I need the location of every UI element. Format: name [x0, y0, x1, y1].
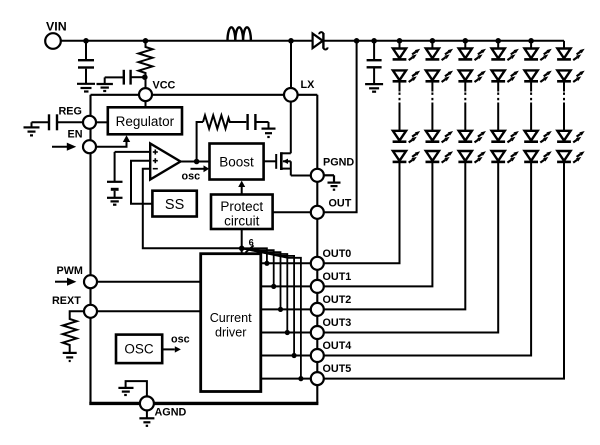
pin OUT0	[311, 257, 324, 270]
resistor R3 (REXT)	[63, 311, 84, 352]
wire string 3 cathode to OUT2	[324, 162, 465, 310]
svg-text:AGND: AGND	[155, 407, 187, 419]
LED D6a	[557, 49, 585, 61]
ground (analog, near AGND)	[118, 381, 146, 396]
wire string 4 mid	[497, 81, 499, 91]
ground (C2)	[97, 84, 113, 91]
block Boost	[210, 144, 264, 180]
svg-text:LX: LX	[301, 79, 316, 91]
svg-text:SS: SS	[165, 197, 184, 213]
junction compensation node	[194, 159, 200, 165]
wire bus fan 5	[242, 248, 301, 378]
wire Current driver to OUT5 pin	[261, 378, 311, 380]
junction string 4/rail	[495, 38, 501, 44]
svg-text:PWM: PWM	[57, 265, 83, 277]
svg-text:OUT3: OUT3	[323, 317, 352, 329]
diode D1 (schottky)	[313, 32, 328, 49]
wire U1 input 2 to SS	[131, 161, 152, 204]
svg-text:driver: driver	[215, 325, 247, 339]
pin OUT	[311, 206, 324, 219]
LED D6b	[557, 70, 585, 82]
pin LX	[284, 88, 298, 102]
node osc output arrow	[162, 334, 189, 353]
wire string 6 dotted continuation	[563, 93, 565, 104]
capacitor C3 (output cap)	[367, 41, 382, 84]
pin VCC	[139, 88, 152, 101]
wire string 4 dotted continuation	[497, 93, 499, 104]
LED D2d	[426, 151, 454, 163]
LED D4a	[491, 49, 519, 61]
LED D1a	[393, 49, 421, 61]
wire string 5 mid2	[530, 103, 532, 132]
LED string 6	[324, 41, 585, 379]
wire string 6 mid2	[563, 103, 565, 132]
junction string 1/rail	[397, 38, 403, 44]
junction fan 5/OUT5 wire	[298, 376, 303, 381]
LED D3d	[458, 151, 486, 163]
wire string 3 mid2	[464, 103, 466, 132]
svg-text:VIN: VIN	[46, 20, 67, 34]
wire PWM to Current driver	[97, 281, 201, 283]
pin PGND	[311, 169, 324, 182]
svg-text:OUT: OUT	[329, 198, 352, 210]
junction C3/rail	[371, 38, 377, 44]
ground (B1)	[107, 198, 123, 205]
LED D1d	[393, 151, 421, 163]
wire string 2 mid2	[431, 103, 433, 132]
junction string 3/rail	[463, 38, 469, 44]
ground (C5)	[262, 129, 276, 137]
LED string 3	[324, 38, 486, 309]
wire REXT to Current driver	[97, 310, 201, 312]
LED D2a	[426, 49, 454, 61]
LED D3a	[458, 49, 486, 61]
wire string 6 anode drop	[563, 41, 565, 49]
pin EN	[83, 140, 96, 153]
wire EN to Regulator (arrow up)	[96, 135, 130, 147]
junction R1/C2	[142, 74, 148, 80]
pin PWM	[84, 275, 97, 288]
wire U1 output to Boost	[181, 161, 210, 163]
LED D3c	[458, 131, 486, 143]
LED D5c	[524, 131, 552, 143]
ground (C1)	[77, 84, 95, 92]
LED D6c	[557, 131, 585, 143]
junction bus node	[239, 246, 245, 252]
capacitor C1 (input cap)	[78, 41, 94, 83]
svg-text:PGND: PGND	[323, 157, 354, 169]
svg-text:Current: Current	[210, 311, 252, 325]
wire REG to Regulator	[96, 121, 108, 123]
wire string 2 mid	[431, 81, 433, 91]
svg-text:OUT2: OUT2	[323, 294, 352, 306]
svg-text:Protect: Protect	[220, 199, 263, 214]
block OSC	[116, 335, 162, 364]
wire OUT pin to Protect	[273, 211, 311, 213]
wire U1 input 3 (feedback) to bus node	[143, 169, 242, 249]
transistor Q1 (power NMOS)	[276, 101, 311, 175]
capacitor C2 (VCC bypass)	[105, 70, 145, 85]
junction fan 4/OUT4 wire	[292, 353, 297, 358]
inductor L1	[228, 27, 251, 41]
bus slash 6	[246, 238, 254, 253]
svg-text:circuit: circuit	[224, 214, 260, 229]
wire IC left boundary	[89, 95, 91, 404]
wire Current driver to OUT4 pin	[261, 355, 311, 357]
wire Protect to Current driver (6-bus)	[241, 229, 243, 254]
pin OUT2	[311, 303, 324, 316]
ground (C3)	[365, 84, 383, 92]
battery B1 (reference)	[107, 152, 123, 197]
wire string 3 mid	[464, 81, 466, 91]
pin OUT5	[311, 372, 324, 385]
block Current driver	[201, 254, 261, 392]
wire Protect to Boost (arrow)	[238, 181, 245, 195]
svg-text:OUT5: OUT5	[323, 363, 352, 375]
wire Current driver to OUT1 pin	[261, 285, 311, 287]
LED D1c	[393, 131, 421, 143]
block Regulator	[108, 107, 182, 134]
node EN input arrow	[52, 143, 76, 151]
node osc into Boost	[182, 165, 210, 182]
LED D3b	[458, 70, 486, 82]
wire string 5 dotted continuation	[530, 93, 532, 104]
ground (PGND)	[324, 175, 341, 189]
junction fan 2/OUT2 wire	[278, 307, 283, 312]
wire bus fan 1	[242, 248, 274, 286]
svg-text:osc: osc	[171, 334, 190, 346]
wire bus fan 3	[242, 248, 288, 332]
LED D5b	[524, 70, 552, 82]
ground (C4)	[24, 127, 40, 135]
LED D2b	[426, 70, 454, 82]
wire string 6 mid	[563, 81, 565, 91]
wire bus fan 2	[242, 248, 281, 309]
svg-text:REXT: REXT	[52, 295, 81, 307]
op-amp U1 (error amplifier)	[150, 144, 180, 180]
LED D1b	[393, 70, 421, 82]
pin REXT	[84, 305, 97, 318]
pin REG	[83, 116, 96, 129]
wire string 6 cathode to OUT5	[324, 162, 564, 379]
svg-text:EN: EN	[68, 129, 83, 141]
wire string 1 anode drop	[399, 41, 401, 49]
wire IC right boundary (pin line)	[316, 95, 318, 404]
junction fan 1/OUT1 wire	[271, 284, 276, 289]
wire string 3 anode drop	[464, 41, 466, 49]
node PWM input arrow	[55, 278, 76, 286]
wire string 4 mid2	[497, 103, 499, 132]
ground (AGND)	[139, 410, 154, 425]
svg-text:OUT1: OUT1	[323, 271, 352, 283]
svg-text:Boost: Boost	[219, 154, 254, 169]
LED string 4	[324, 38, 519, 333]
wire string 2 cathode to OUT1	[324, 162, 433, 287]
wire Current driver to OUT0 pin	[261, 262, 311, 264]
wire string 4 anode drop	[497, 41, 499, 49]
wire string 5 mid	[530, 81, 532, 91]
wire string 3 dotted continuation	[464, 93, 466, 104]
svg-text:OSC: OSC	[124, 341, 154, 356]
LED D4b	[491, 70, 519, 82]
svg-text:6: 6	[249, 238, 254, 248]
svg-text:OUT4: OUT4	[323, 340, 352, 352]
wire string 2 dotted continuation	[431, 93, 433, 104]
resistor R2 (compensation)	[203, 115, 246, 128]
svg-text:osc: osc	[182, 171, 201, 183]
pin VIN	[45, 33, 61, 49]
capacitor C5 (compensation)	[248, 114, 269, 130]
junction R1/rail	[143, 38, 149, 44]
wire Boost to Q1 gate	[264, 160, 277, 162]
LED D4d	[491, 151, 519, 163]
wire string 1 mid	[399, 81, 401, 91]
wire string 5 anode drop	[530, 41, 532, 49]
wire U1 input 1	[115, 151, 151, 153]
junction LX/rail	[288, 38, 294, 44]
junction string 5/rail	[528, 38, 534, 44]
wire string 1 mid2	[399, 103, 401, 132]
LED D4c	[491, 131, 519, 143]
wire VCC to Regulator	[145, 101, 147, 107]
LED D5a	[524, 49, 552, 61]
svg-text:Regulator: Regulator	[116, 114, 175, 129]
ground (R3)	[63, 353, 77, 361]
block SS	[152, 191, 196, 217]
junction string 2/rail	[430, 38, 436, 44]
resistor R1 (VCC supply)	[139, 41, 153, 87]
LED D5d	[524, 151, 552, 163]
wire string 1 dotted continuation	[399, 93, 401, 104]
wire string 4 cathode to OUT3	[324, 162, 498, 333]
pin OUT3	[311, 326, 324, 339]
LED string 2	[324, 38, 453, 286]
junction fan 0/OUT0 wire	[264, 261, 269, 266]
pin AGND	[140, 396, 154, 410]
wire Current driver to OUT3 pin	[261, 332, 311, 334]
LED D6d	[557, 151, 585, 163]
svg-text:OUT0: OUT0	[323, 248, 352, 260]
wire bus fan 4	[242, 248, 294, 355]
wire bus fan 0	[242, 248, 267, 263]
wire Current driver to OUT2 pin	[261, 308, 311, 310]
pin OUT4	[311, 349, 324, 362]
junction fan 3/OUT3 wire	[285, 330, 290, 335]
wire rail to LX pin	[290, 41, 292, 89]
wire string 2 anode drop	[431, 41, 433, 49]
wire compensation branch	[197, 122, 203, 162]
wire IC top boundary	[91, 94, 318, 96]
wire string 1 cathode to OUT0	[324, 162, 400, 263]
pin OUT1	[311, 280, 324, 293]
wire VIN rail (top)	[53, 40, 564, 42]
junction OUT sense/rail	[354, 38, 360, 44]
wire string 5 cathode to OUT4	[324, 162, 531, 356]
wire OUT sense (rail to OUT pin)	[324, 41, 357, 213]
svg-text:REG: REG	[59, 106, 82, 118]
junction C1/rail	[83, 38, 89, 44]
LED string 1	[324, 38, 420, 263]
capacitor C4 (REG)	[32, 114, 84, 130]
svg-text:VCC: VCC	[153, 80, 176, 92]
LED D2c	[426, 131, 454, 143]
LED string 5	[324, 38, 552, 356]
wire AGND bottom bus	[89, 402, 318, 405]
block Protect circuit	[211, 195, 273, 230]
